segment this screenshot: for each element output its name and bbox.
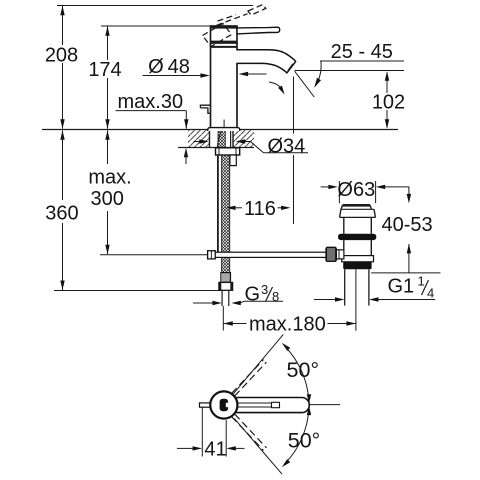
svg-text:Ø34: Ø34 (268, 135, 306, 157)
svg-text:208: 208 (45, 44, 78, 66)
svg-text:max.180: max.180 (249, 314, 326, 336)
svg-text:4: 4 (427, 286, 434, 301)
svg-text:40-53: 40-53 (382, 214, 433, 236)
svg-text:Ø63: Ø63 (337, 179, 375, 201)
svg-text:50°: 50° (287, 358, 320, 382)
svg-text:300: 300 (91, 188, 124, 210)
svg-text:max.30: max.30 (118, 91, 184, 113)
svg-text:360: 360 (45, 203, 78, 225)
svg-text:41: 41 (204, 438, 226, 460)
svg-text:116: 116 (244, 198, 276, 220)
svg-text:1: 1 (418, 274, 425, 289)
svg-text:G: G (245, 284, 261, 306)
svg-text:G1: G1 (388, 276, 415, 298)
svg-text:50°: 50° (288, 429, 321, 453)
svg-text:102: 102 (372, 92, 405, 114)
svg-text:3: 3 (261, 282, 268, 297)
svg-text:174: 174 (88, 59, 121, 81)
svg-text:Ø 48: Ø 48 (148, 56, 190, 78)
svg-text:max.: max. (88, 166, 131, 188)
svg-text:25 - 45: 25 - 45 (331, 41, 393, 63)
